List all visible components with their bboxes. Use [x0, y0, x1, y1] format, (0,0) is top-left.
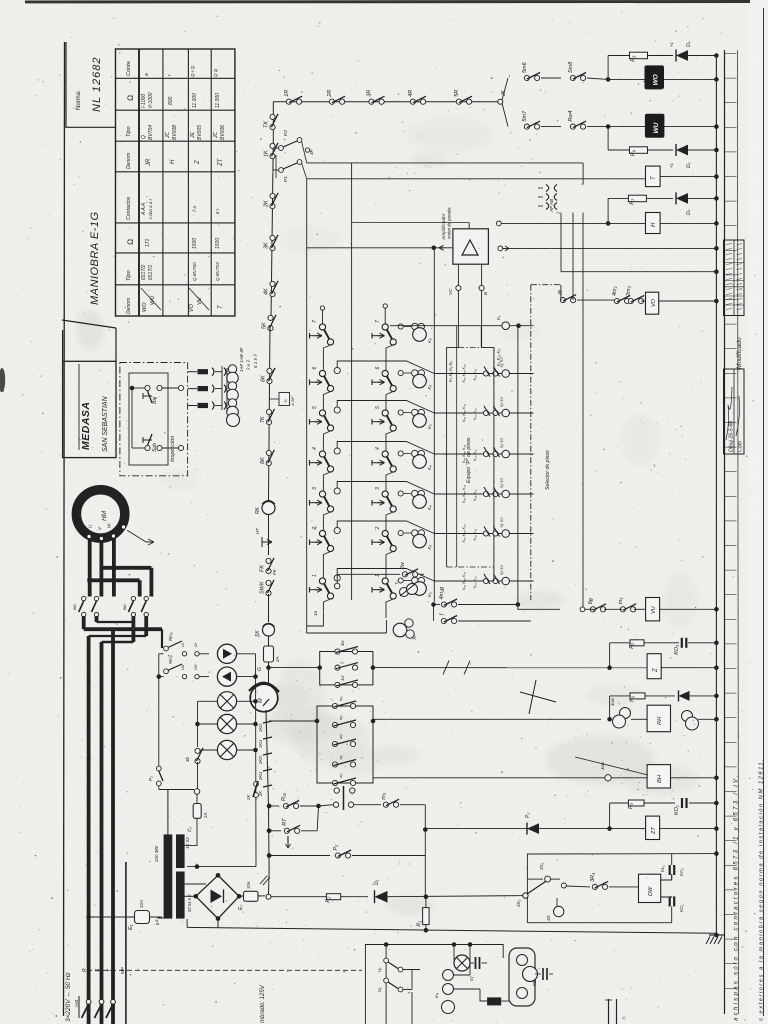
- RH line left segment: [372, 719, 374, 721]
- floor contact 6a col1: [309, 380, 311, 386]
- svg-text:6 1 5 ʔ: 6 1 5 ʔ: [253, 354, 258, 368]
- svg-text:Q: Q: [141, 135, 147, 139]
- svg-text:SWK: SWK: [260, 581, 266, 594]
- component table grid: [116, 49, 235, 316]
- svg-text:K₂₀ K₁₁: K₂₀ K₁₁: [473, 489, 477, 501]
- svg-text:orden de parada: orden de parada: [447, 207, 452, 239]
- switch HP arrow: [268, 530, 270, 555]
- svg-text:7: 7: [312, 320, 318, 323]
- svg-text:RK: RK: [255, 506, 261, 514]
- svg-text:5ƒ 5Ɔ: 5ƒ 5Ɔ: [500, 565, 504, 575]
- svg-text:RT: RT: [282, 818, 288, 826]
- svg-text:K₆: K₆: [496, 315, 501, 320]
- bank2 contact row 2: [332, 722, 337, 727]
- svg-text:WO: WO: [653, 74, 660, 85]
- svg-text:2K: 2K: [246, 794, 251, 801]
- svg-text:Conta: Conta: [126, 61, 132, 76]
- svg-text:Or: Or: [193, 642, 198, 647]
- svg-text:3S₂: 3S₂: [516, 899, 521, 907]
- time relay TL box: [270, 398, 280, 400]
- svg-text:DW: DW: [648, 886, 654, 896]
- Norma cell box: [66, 42, 116, 127]
- svg-text:6: 6: [312, 367, 318, 370]
- svg-text:6517/2: 6517/2: [141, 264, 147, 280]
- chain contact 5K: [268, 315, 273, 320]
- resistor R3: [326, 894, 340, 900]
- capacitor KO1: [681, 798, 683, 808]
- svg-text:II-1000: II-1000: [148, 92, 154, 108]
- svg-text:5m6: 5m6: [522, 61, 528, 73]
- svg-text:Sm8: Sm8: [568, 61, 574, 73]
- motor pointer arrow: [127, 530, 146, 542]
- amp top wire: [468, 223, 470, 229]
- svg-text:Ω: Ω: [126, 95, 135, 101]
- svg-text:4m₂: 4m₂: [612, 285, 618, 296]
- col1 col2 top feeders: [322, 310, 324, 324]
- svg-text:2KO: 2KO: [258, 755, 263, 765]
- selector verticals: [433, 248, 435, 602]
- diode D5: [676, 50, 688, 61]
- junction 4m1g lines: [431, 602, 436, 607]
- right margin ruler ticks: [725, 53, 737, 55]
- svg-text:K₆: K₆: [427, 424, 432, 429]
- resistor R6: [630, 693, 645, 699]
- bank1 contact row 2: [335, 665, 340, 670]
- selector dash-dot x494 segments: [493, 348, 495, 581]
- title block Dibuj/Com box: [724, 369, 745, 454]
- zigzag wire floor 3: [334, 488, 340, 494]
- svg-text:220 380: 220 380: [154, 845, 159, 863]
- svg-text:4ow: 4ow: [610, 697, 615, 706]
- MANIOBRA cell bottom line: [62, 320, 116, 328]
- svg-text:Equipo "P" de pisos: Equipo "P" de pisos: [466, 437, 472, 483]
- switch P2 top: [279, 146, 284, 151]
- svg-text:K₆: K₆: [427, 465, 432, 470]
- svg-text:B: B: [483, 292, 488, 295]
- svg-text:3R: 3R: [367, 90, 373, 97]
- svg-text:w₂: w₂: [338, 696, 343, 701]
- dash-dot corner to 4f: [531, 284, 561, 286]
- diode D1: [375, 891, 388, 903]
- fuse C2 2A: [193, 804, 201, 819]
- svg-text:Denom: Denom: [126, 298, 132, 314]
- coil T: [646, 166, 661, 187]
- svg-text:K₂₀ K₁₁: K₂₀ K₁₁: [473, 576, 477, 588]
- svg-text:KC₂: KC₂: [679, 868, 684, 876]
- svg-text:5R: 5R: [454, 90, 460, 97]
- phone box bottom wires: [385, 983, 387, 1024]
- svg-text:2K: 2K: [258, 791, 263, 797]
- door relay K circle floor 6: [398, 370, 403, 375]
- lamp X4: [198, 723, 218, 725]
- switch Baj: [145, 385, 150, 390]
- bus series contacts 1KO-2KU: [263, 721, 272, 723]
- lamp down arrow: [217, 667, 236, 686]
- title block Modificado box: [724, 240, 745, 316]
- chain contacts FK SWK: [266, 558, 271, 563]
- floor1 col1 bottom wires: [307, 599, 331, 626]
- alarm bell M2: [250, 684, 278, 712]
- svg-text:U₂: U₂: [377, 987, 382, 992]
- contact 3b: [195, 748, 200, 753]
- capacitor KO3: [681, 638, 683, 648]
- svg-text:800: 800: [168, 96, 174, 105]
- svg-text:BV005: BV005: [197, 125, 203, 140]
- bank1 contact row 3: [335, 682, 340, 687]
- contacts 5m6 Sm8 to WO: [502, 78, 508, 100]
- svg-text:ZT: ZT: [651, 827, 657, 835]
- zigzag wire floor 1: [334, 575, 340, 581]
- inspection box dash-dot: [120, 363, 188, 476]
- rectifier AC tap wires: [185, 883, 206, 885]
- svg-text:R₈: R₈: [631, 55, 637, 62]
- wire col2 floor1 down: [386, 599, 393, 618]
- svg-text:BH: BH: [657, 774, 663, 783]
- left lamp rail: [158, 654, 160, 766]
- svg-text:P₃: P₃: [525, 813, 531, 818]
- coil Z: [373, 667, 647, 669]
- svg-text:VO: VO: [651, 298, 657, 307]
- svg-text:Q BV703: Q BV703: [215, 262, 220, 281]
- svg-text:Rm₈: Rm₈: [168, 632, 173, 641]
- svg-text:Ω: Ω: [126, 239, 135, 245]
- coil ZT: [646, 816, 660, 839]
- contactor WU main contacts: [131, 596, 135, 600]
- svg-text:1R: 1R: [284, 90, 290, 97]
- svg-text:K₅₁ K₄₀ K₃₁: K₅₁ K₄₀ K₃₁: [462, 403, 466, 422]
- svg-text:3: 3: [312, 487, 318, 490]
- contact bank box1: [320, 652, 373, 685]
- wire branch to R5: [607, 826, 612, 831]
- svg-text:5ƒ 5Ɔ: 5ƒ 5Ɔ: [500, 397, 504, 407]
- hoist motor HM ring: [76, 490, 124, 538]
- svg-text:KC₁: KC₁: [679, 904, 684, 912]
- svg-text:K₂₀ K₁₁: K₂₀ K₁₁: [473, 528, 477, 540]
- svg-text:ƒ: ƒ: [439, 613, 445, 616]
- svg-text:3×220V ↔ 50 Hz: 3×220V ↔ 50 Hz: [65, 972, 72, 1022]
- svg-text:w₂: w₂: [338, 715, 343, 720]
- bridge rectifier G1: [196, 875, 239, 918]
- svg-text:NL 12682: NL 12682: [91, 56, 103, 112]
- svg-text:K₂₀ K₁₁: K₂₀ K₁₁: [473, 408, 477, 420]
- svg-text:K₆: K₆: [427, 505, 432, 510]
- svg-text:KL₁: KL₁: [660, 865, 665, 872]
- svg-text:K₅₁ K₄₀ K₃₁: K₅₁ K₄₀ K₃₁: [462, 363, 466, 382]
- svg-text:1a: 1a: [313, 611, 318, 616]
- svg-text:BV704: BV704: [148, 125, 154, 140]
- selector row floor 3: [434, 493, 533, 495]
- plug vertical ties: [221, 366, 223, 410]
- fuse E1 10A: [86, 915, 91, 920]
- primary bottom terminal: [157, 917, 163, 919]
- floor contact 1a col1: [309, 587, 311, 593]
- svg-text:D₇: D₇: [686, 209, 692, 215]
- svg-text:P₂: P₂: [148, 776, 153, 781]
- matrix left rail: [306, 179, 308, 633]
- resistor R5: [628, 800, 644, 806]
- selector bottom link to VU: [518, 605, 560, 610]
- selector row floor 4: [434, 453, 533, 455]
- bank1 contact row 1: [335, 649, 340, 654]
- wire branch to R6: [607, 717, 612, 722]
- svg-text:Baj: Baj: [152, 396, 158, 404]
- bell housing: [509, 948, 535, 1006]
- wire DC line y896: [271, 896, 326, 898]
- svg-text:VU: VU: [651, 606, 657, 614]
- svg-text:5: 5: [312, 406, 318, 409]
- svg-text:WU: WU: [653, 122, 660, 133]
- fuse G 2A: [268, 636, 270, 646]
- svg-text:P2: P2: [283, 130, 289, 136]
- svg-text:I-1000: I-1000: [141, 94, 147, 108]
- coil RH line: [373, 718, 601, 720]
- svg-text:↑H3: ↑H3: [74, 1000, 79, 1008]
- lamp X phone: [453, 945, 455, 964]
- svg-text:K₆: K₆: [427, 545, 432, 550]
- contact 2K on lamp rail: [254, 782, 259, 787]
- svg-text:K₅₁ K₄₀ K₃₁: K₅₁ K₄₀ K₃₁: [462, 484, 466, 503]
- bank2 contact row 4: [332, 762, 337, 767]
- svg-text:Dibuj 26-5-68: Dibuj 26-5-68: [728, 421, 734, 452]
- phone cap: [542, 968, 544, 980]
- svg-text:BV008: BV008: [172, 125, 178, 140]
- svg-text:2: 2: [375, 527, 381, 531]
- circle 3S3: [527, 878, 543, 880]
- svg-text:T₁: T₁: [394, 580, 399, 585]
- wire R5 to KO1: [644, 802, 675, 804]
- svg-text:a: a: [144, 73, 150, 76]
- svg-text:H: H: [170, 159, 176, 164]
- switch P2 lower: [156, 766, 161, 771]
- svg-text:Z: Z: [653, 668, 659, 673]
- lamp X3: [198, 700, 218, 702]
- svg-text:Selector de pisos: Selector de pisos: [545, 450, 551, 490]
- plug circles column: [228, 365, 236, 373]
- socket circles m4: [443, 970, 454, 981]
- coil BH line: [373, 777, 647, 779]
- floor contact 2b col2: [371, 540, 373, 546]
- svg-text:m₃: m₃: [618, 597, 624, 605]
- transformer AF vertical taps: [560, 213, 562, 272]
- wire branch to R9: [607, 127, 609, 150]
- svg-text:R₅: R₅: [628, 802, 634, 809]
- floor contact 7a col1: [309, 333, 311, 339]
- svg-text:wo: wo: [72, 604, 77, 610]
- floor contact 3a col1: [309, 500, 311, 506]
- svg-text:2A: 2A: [203, 813, 208, 819]
- svg-text:Q BV700: Q BV700: [192, 262, 197, 281]
- buzzer SK: [263, 624, 275, 636]
- svg-text:JC: JC: [165, 132, 171, 140]
- motor feeder wires: [88, 538, 92, 597]
- node 3F stub: [305, 148, 309, 152]
- svg-text:1KO: 1KO: [258, 723, 263, 732]
- svg-text:×1: ×1: [669, 163, 674, 168]
- BH line from bank2: [372, 778, 374, 783]
- lamp up arrow: [217, 644, 236, 663]
- contact Rm8 row: [164, 646, 169, 651]
- svg-text:achispas sólo con contactores: achispas sólo con contactores 6573 /1 y …: [733, 773, 740, 1021]
- svg-text:E₂: E₂: [238, 905, 244, 910]
- wire branch to R7: [606, 221, 611, 226]
- MEDASA block box: [63, 361, 116, 457]
- svg-text:1500: 1500: [215, 238, 221, 249]
- svg-text:1AF 1AB 3F: 1AF 1AB 3F: [239, 347, 244, 372]
- svg-text:2KU: 2KU: [258, 771, 263, 781]
- left sheet border: [64, 42, 65, 1016]
- zigzag wire floor 2: [334, 527, 340, 533]
- svg-text:5K: 5K: [262, 322, 268, 329]
- svg-text:Tipo: Tipo: [126, 270, 132, 281]
- floor contact 6b col2: [371, 380, 373, 386]
- VC feeder wire: [447, 291, 459, 567]
- tap connections: [560, 285, 562, 300]
- wire line y271: [561, 271, 716, 273]
- svg-text:AF AB: AF AB: [549, 199, 554, 213]
- bank1 line to left bus: [269, 667, 320, 669]
- coil VU line: [580, 607, 585, 612]
- cap symbol phone: [470, 962, 474, 964]
- contacts 5m7 Rw4 to WU: [502, 103, 508, 127]
- svg-text:×1: ×1: [669, 42, 674, 47]
- wire D1 to 3S box: [388, 896, 526, 897]
- door relay K circle floor 7: [398, 324, 403, 329]
- svg-text:RH: RH: [657, 716, 663, 725]
- svg-text:1KU: 1KU: [258, 739, 263, 748]
- wire line y178 T line: [307, 178, 646, 180]
- svg-text:1/,30º: 1/,30º: [291, 396, 295, 406]
- svg-text:4R: 4R: [408, 90, 414, 97]
- svg-text:Kₕ Kₓ Kₐ Kₒ: Kₕ Kₓ Kₐ Kₒ: [448, 361, 453, 382]
- floor7 feeder to box: [480, 326, 482, 348]
- row 4m6: [267, 804, 272, 809]
- lamp X5: [198, 749, 218, 751]
- contact m1g vertical: [334, 788, 339, 793]
- door relay K circle floor 4: [398, 451, 403, 456]
- capacitor KC2: [661, 874, 672, 880]
- floor7 selector row: [390, 325, 534, 327]
- svg-text:2A: 2A: [275, 656, 280, 663]
- svg-text:Norma:: Norma:: [76, 90, 82, 110]
- svg-text:£ r: £ r: [215, 208, 220, 215]
- resistor R7: [628, 195, 646, 202]
- svg-text:5ƒ 5Ɔ: 5ƒ 5Ɔ: [500, 478, 504, 488]
- svg-text:R₂: R₂: [326, 896, 332, 903]
- svg-text:6K: 6K: [261, 375, 267, 382]
- bus below bell: [266, 710, 269, 806]
- svg-text:ʔ a: ʔ a: [192, 205, 197, 212]
- diode P3: [527, 823, 539, 834]
- contactor WO main contacts: [82, 596, 86, 600]
- svg-text:6517/1: 6517/1: [148, 264, 154, 280]
- wire P3 to ZT: [539, 828, 645, 830]
- right vertical bus: [715, 56, 717, 936]
- svg-text:K₅₁ K₄₀ K₃₁: K₅₁ K₄₀ K₃₁: [462, 571, 466, 590]
- svg-text:5ƒ 5Ɔ: 5ƒ 5Ɔ: [500, 517, 504, 527]
- svg-text:P1: P1: [283, 176, 289, 182]
- svg-text:K₂₀ K₁₁: K₂₀ K₁₁: [473, 449, 477, 461]
- svg-text:6: 6: [375, 367, 381, 370]
- svg-text:D₁: D₁: [374, 879, 380, 885]
- svg-text:m₄: m₄: [434, 992, 439, 998]
- wire R3 to D1: [341, 896, 368, 898]
- main switch H3: [86, 999, 91, 1004]
- contact bank box2: [317, 706, 373, 783]
- second contact row: [433, 605, 435, 622]
- diode D7: [676, 193, 688, 204]
- svg-text:Modificado: Modificado: [736, 337, 743, 369]
- zigzag wire floor 6: [334, 367, 340, 373]
- svg-text:TL: TL: [284, 399, 288, 403]
- relay T1 circles: [400, 588, 409, 597]
- door relay K circle floor 5: [398, 410, 403, 415]
- svg-text:Z: Z: [195, 160, 201, 165]
- svg-text:ʔ0: ʔ0: [412, 635, 417, 640]
- equipo P box bottom edge: [447, 566, 494, 568]
- main bottom line: [187, 927, 716, 933]
- phone wires: [482, 962, 488, 964]
- node JK circle: [498, 99, 503, 104]
- door relay K circle floor 3: [398, 491, 403, 496]
- coil H: [496, 221, 501, 226]
- inspection inner box: [129, 373, 168, 465]
- wire R9 to D6: [648, 149, 673, 151]
- lamp rail bottom to transformer tap: [187, 866, 256, 868]
- svg-text:5ƒ 5Ɔ: 5ƒ 5Ɔ: [500, 438, 504, 448]
- svg-text:1: 1: [312, 574, 318, 577]
- svg-text:mbrado: 125V: mbrado: 125V: [260, 984, 266, 1023]
- door relay K circle floor 1: [398, 578, 403, 583]
- svg-text:6g: 6g: [588, 597, 594, 604]
- svg-text:Inspección: Inspección: [170, 436, 176, 462]
- coil WU: [606, 124, 611, 129]
- svg-text:U₁: U₁: [377, 967, 382, 972]
- svg-text:KO₁: KO₁: [674, 805, 680, 815]
- phone KB circle: [523, 967, 538, 982]
- svg-text:5ƒ: 5ƒ: [469, 976, 474, 981]
- neutral line MP: [125, 862, 127, 1024]
- capacitor KC1: [661, 895, 672, 898]
- svg-text:HM: HM: [101, 510, 108, 521]
- wire to fuse C2: [159, 789, 194, 791]
- 3S3 wire to box top: [551, 878, 560, 880]
- C2 wire to secondary top: [185, 818, 197, 845]
- wire line y248: [498, 246, 503, 251]
- svg-text:Denom: Denom: [126, 153, 132, 169]
- svg-text:5ƒ 5Ɔ: 5ƒ 5Ɔ: [500, 357, 504, 367]
- svg-text:171: 171: [145, 238, 151, 247]
- transformer primary top wire: [167, 790, 169, 835]
- svg-text:2w: 2w: [400, 561, 406, 570]
- wire branch to R2: [607, 665, 612, 670]
- left vertical chain: [272, 102, 274, 140]
- svg-text:11.000: 11.000: [215, 93, 221, 108]
- svg-text:3R₄: 3R₄: [590, 873, 596, 882]
- svg-text:K₅₁ K₄₀ K₃₁: K₅₁ K₄₀ K₃₁: [462, 444, 466, 463]
- plug coil arcs: [224, 368, 226, 376]
- svg-text:ZT: ZT: [218, 157, 224, 167]
- rectifier bottom wire: [217, 919, 219, 928]
- svg-text:4: 4: [312, 447, 318, 450]
- svg-text:8K: 8K: [260, 457, 266, 464]
- dashed separator alumbrado: [87, 969, 362, 971]
- svg-text:M: M: [258, 698, 264, 703]
- buzzer RK: [262, 502, 275, 515]
- plug connector block: [188, 371, 197, 373]
- left edge dark blemish: [0, 370, 4, 392]
- svg-text:5: 5: [375, 406, 381, 409]
- svg-text:R₉: R₉: [631, 149, 637, 156]
